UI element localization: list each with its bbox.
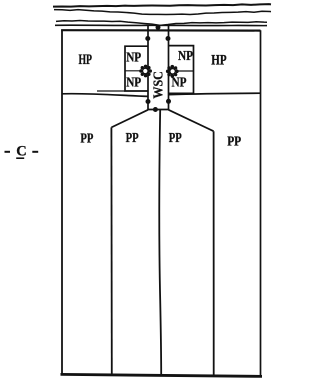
wavy line L3 (second band upper, dips at center) (56, 20, 267, 25)
svg-text:HP: HP (211, 53, 226, 69)
svg-text:NP: NP (178, 49, 193, 64)
right NP box (169, 46, 194, 94)
left NP divider (125, 70, 148, 72)
WSC channel right wall (168, 26, 170, 110)
gear symbol left (139, 65, 152, 78)
funnel left slope (111, 110, 148, 128)
HP/PP divider line right segment (169, 93, 261, 94)
gear symbol right (166, 65, 179, 78)
stub line above divider (left) (97, 90, 125, 92)
right NP divider (169, 70, 194, 72)
outer vessel bottom edge (61, 374, 263, 376)
outer vessel box (61, 30, 63, 375)
funnel left wall (col1/col2 divider) (110, 127, 112, 374)
center column divider (159, 110, 161, 376)
svg-text:C: C (16, 143, 26, 159)
svg-text:PP: PP (80, 132, 93, 147)
svg-text:PP: PP (126, 131, 139, 146)
svg-text:WSC: WSC (151, 71, 166, 99)
WSC channel bottom (148, 109, 169, 111)
junction dot right wall lower (166, 99, 171, 104)
svg-text:HP: HP (79, 52, 93, 68)
svg-text:NP: NP (172, 76, 187, 91)
svg-text:PP: PP (169, 131, 182, 146)
wavy line L4 (second band lower) (55, 24, 267, 26)
wavy line L2 (top band lower) (54, 10, 271, 15)
junction dot top center (156, 25, 161, 30)
funnel right slope (169, 110, 214, 131)
funnel right wall (col3/col4 divider) (213, 131, 215, 375)
left NP box (125, 46, 149, 91)
svg-text:NP: NP (126, 50, 141, 65)
junction dot left wall upper (145, 36, 150, 41)
HP/PP divider line left segment (62, 94, 148, 97)
label C (left margin) (5, 143, 39, 159)
WSC channel left wall (147, 26, 149, 110)
junction dot channel bottom (153, 107, 158, 112)
svg-text:PP: PP (227, 135, 241, 150)
junction dot left wall lower (146, 99, 151, 104)
junction dot right wall upper (166, 36, 171, 41)
svg-text:NP: NP (126, 76, 141, 91)
wavy line L1 (top band upper) (53, 4, 271, 7)
